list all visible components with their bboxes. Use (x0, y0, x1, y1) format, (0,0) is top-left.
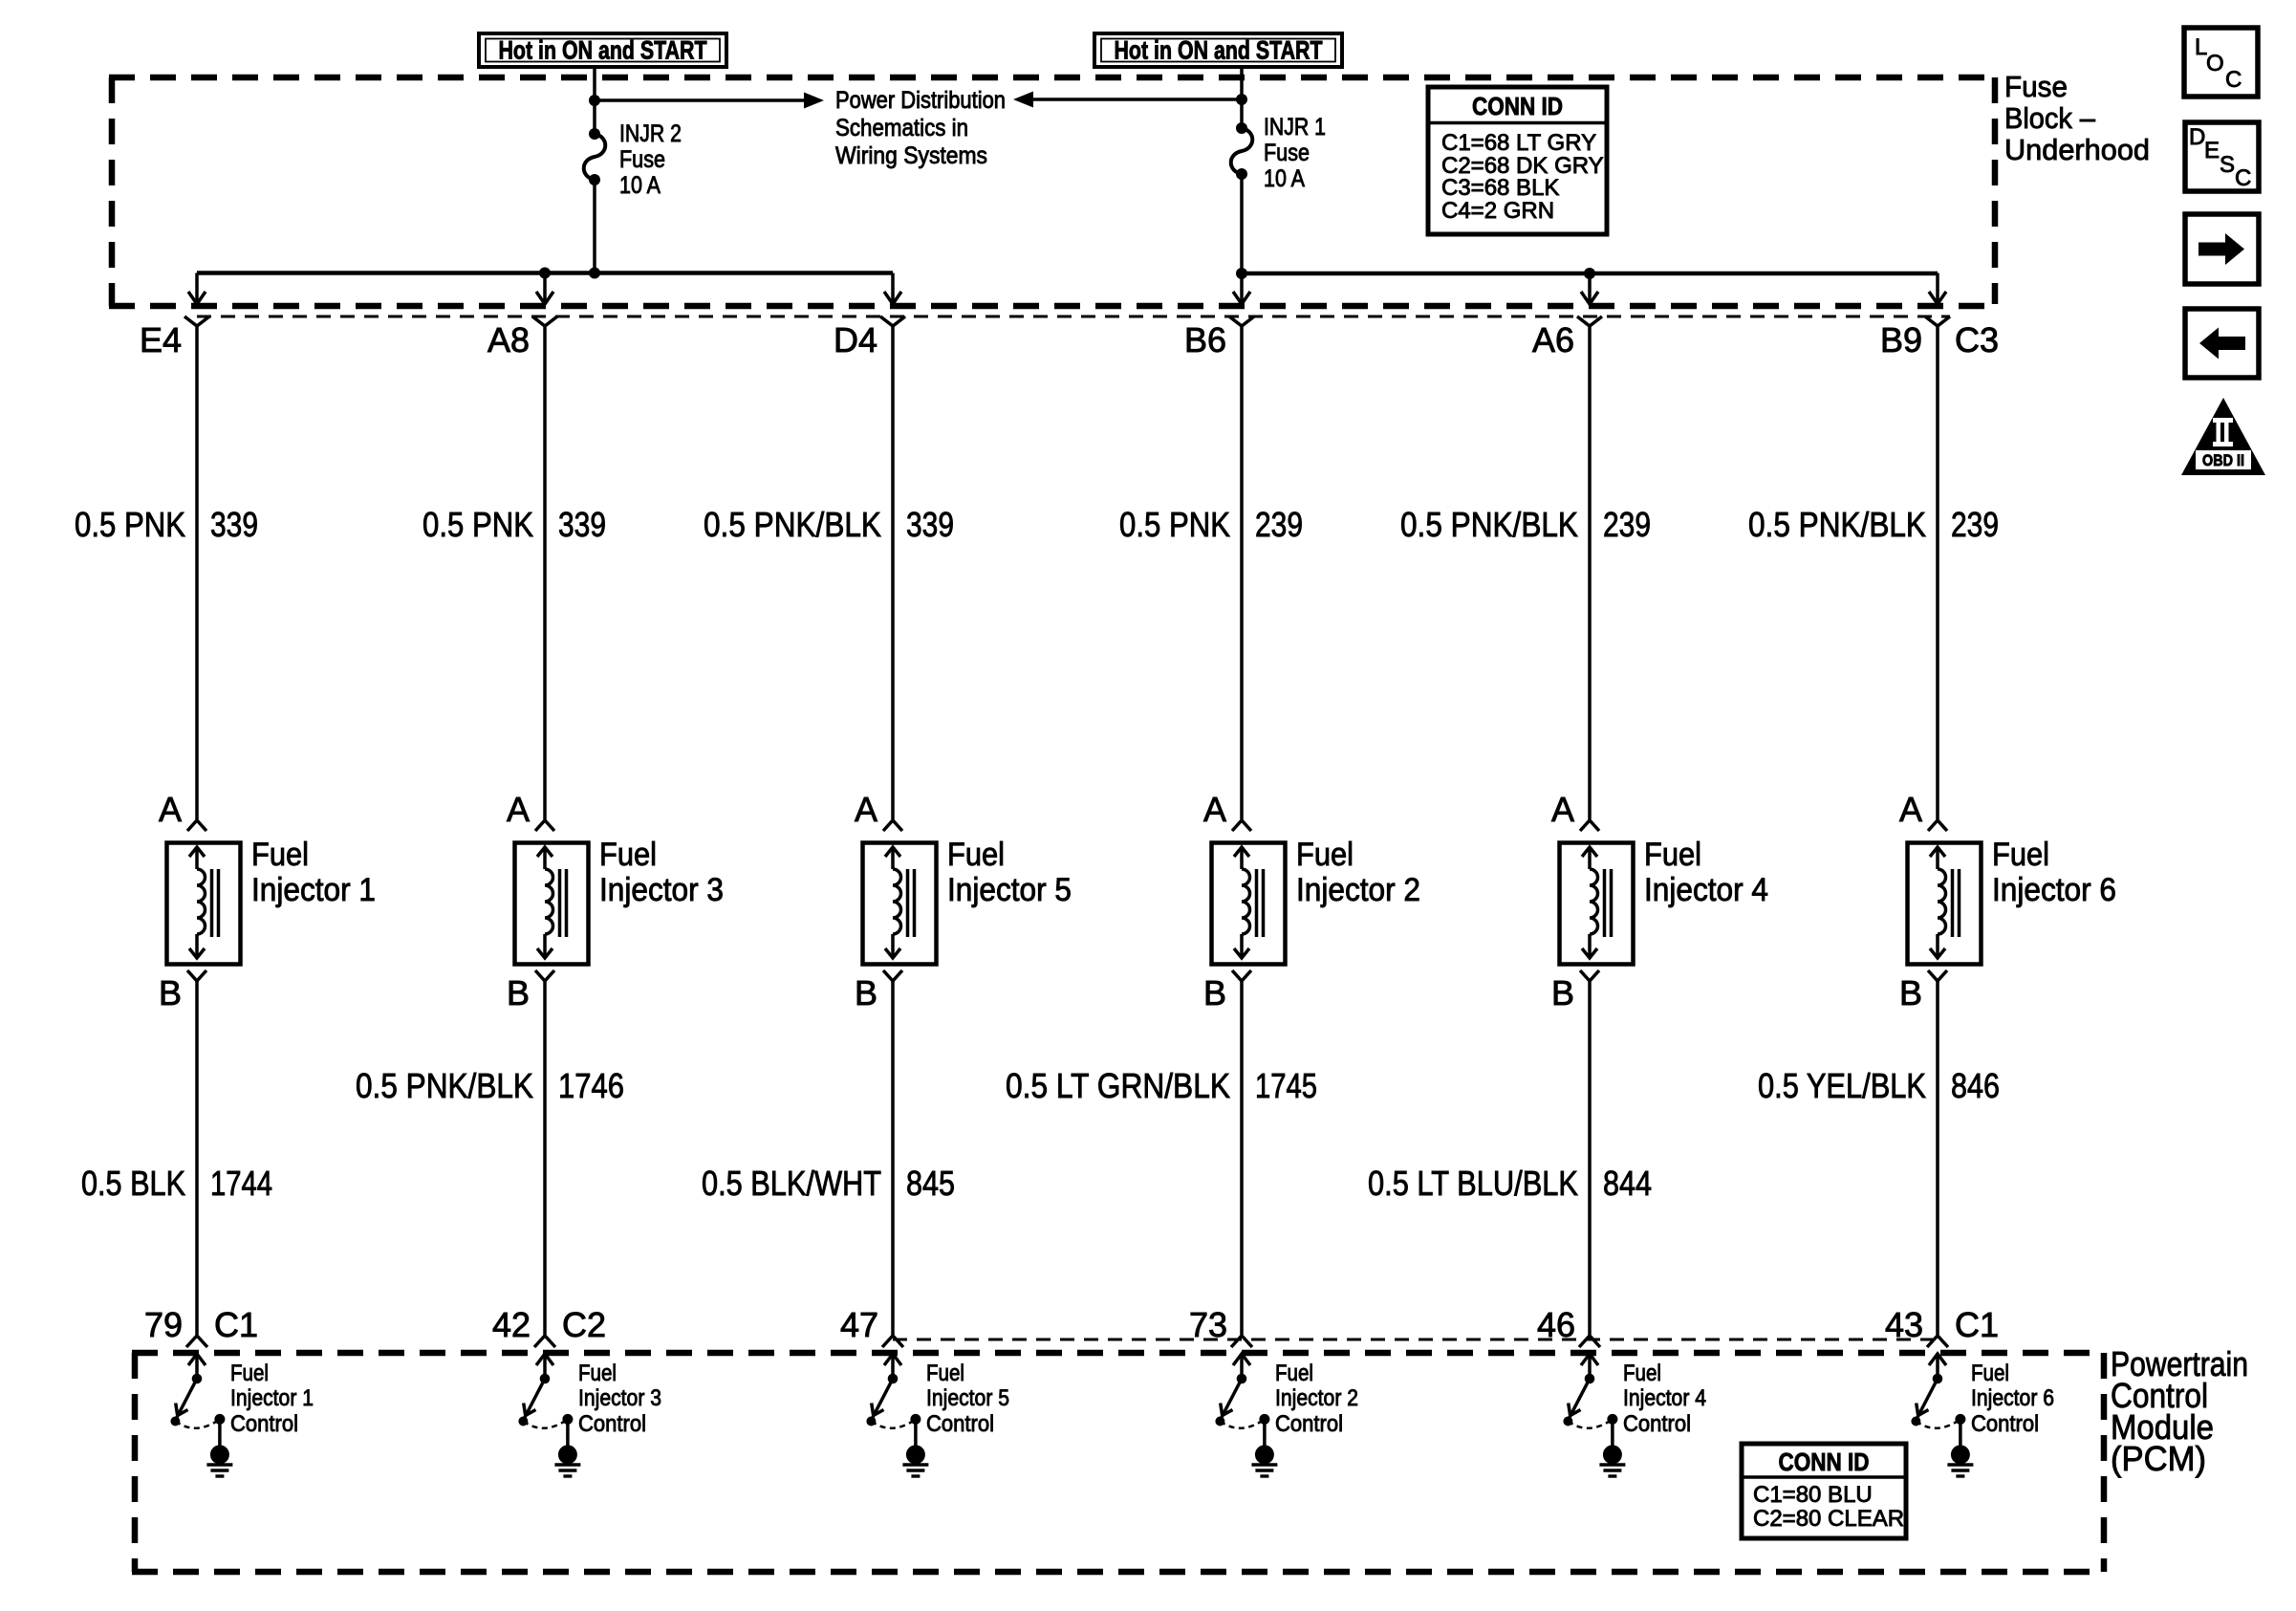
svg-text:C: C (2225, 67, 2242, 93)
svg-text:46: 46 (1537, 1305, 1575, 1344)
svg-text:C3=68 BLK: C3=68 BLK (1441, 175, 1559, 201)
svg-text:Control: Control (578, 1411, 646, 1437)
svg-text:47: 47 (840, 1305, 878, 1344)
svg-text:0.5 PNK/BLK: 0.5 PNK/BLK (356, 1066, 533, 1105)
svg-text:846: 846 (1951, 1066, 2000, 1105)
svg-text:Injector 5: Injector 5 (947, 872, 1072, 908)
svg-text:Control: Control (1971, 1411, 2039, 1437)
svg-text:A8: A8 (487, 320, 530, 359)
svg-text:E: E (2204, 138, 2220, 163)
svg-text:Control: Control (1275, 1411, 1343, 1437)
svg-text:339: 339 (210, 505, 258, 544)
svg-text:C2=80 CLEAR: C2=80 CLEAR (1753, 1506, 1904, 1532)
svg-text:Fuel: Fuel (926, 1361, 964, 1386)
svg-text:B: B (507, 973, 530, 1012)
svg-text:Injector 2: Injector 2 (1275, 1385, 1358, 1411)
svg-text:A: A (507, 790, 530, 829)
svg-text:B: B (1203, 973, 1226, 1012)
svg-text:A6: A6 (1532, 320, 1574, 359)
svg-text:1745: 1745 (1255, 1066, 1317, 1105)
svg-text:S: S (2220, 152, 2235, 178)
svg-text:Block –: Block – (2004, 101, 2096, 135)
svg-text:0.5 LT GRN/BLK: 0.5 LT GRN/BLK (1006, 1066, 1230, 1105)
svg-text:Fuel: Fuel (230, 1361, 269, 1386)
svg-text:Fuel: Fuel (578, 1361, 617, 1386)
svg-text:1746: 1746 (558, 1066, 624, 1105)
svg-text:42: 42 (492, 1305, 531, 1344)
svg-text:C3: C3 (1955, 320, 1999, 359)
svg-text:Fuse: Fuse (2004, 70, 2068, 103)
svg-text:Injector 3: Injector 3 (599, 872, 724, 908)
svg-text:Injector 6: Injector 6 (1992, 872, 2116, 908)
svg-text:Fuel: Fuel (1644, 837, 1701, 873)
svg-text:239: 239 (1951, 505, 1999, 544)
svg-text:Fuel: Fuel (599, 837, 657, 873)
svg-text:0.5 PNK/BLK: 0.5 PNK/BLK (1400, 505, 1578, 544)
svg-text:C1: C1 (214, 1305, 258, 1344)
svg-text:Fuel: Fuel (1296, 837, 1354, 873)
svg-text:0.5 PNK: 0.5 PNK (422, 505, 533, 544)
svg-text:CONN ID: CONN ID (1779, 1448, 1870, 1476)
svg-text:845: 845 (906, 1164, 955, 1203)
svg-text:Fuse: Fuse (1264, 140, 1310, 166)
svg-text:43: 43 (1885, 1305, 1923, 1344)
svg-text:Fuel: Fuel (1971, 1361, 2009, 1386)
svg-text:0.5 LT BLU/BLK: 0.5 LT BLU/BLK (1368, 1164, 1578, 1203)
svg-text:D: D (2189, 124, 2205, 150)
svg-text:Injector 5: Injector 5 (926, 1385, 1009, 1411)
svg-text:0.5 BLK/WHT: 0.5 BLK/WHT (702, 1164, 881, 1203)
svg-text:339: 339 (906, 505, 954, 544)
svg-text:Injector 1: Injector 1 (230, 1385, 314, 1411)
svg-text:Underhood: Underhood (2004, 133, 2150, 166)
svg-text:Fuel: Fuel (251, 837, 309, 873)
svg-text:Wiring Systems: Wiring Systems (835, 142, 987, 169)
svg-text:B: B (1899, 973, 1922, 1012)
svg-text:Schematics in: Schematics in (835, 115, 968, 142)
svg-text:Power Distribution: Power Distribution (835, 87, 1006, 114)
svg-text:C4=2 GRN: C4=2 GRN (1441, 198, 1554, 224)
svg-text:CONN ID: CONN ID (1472, 92, 1563, 120)
svg-text:Hot in ON and START: Hot in ON and START (499, 36, 707, 65)
svg-text:844: 844 (1603, 1164, 1652, 1203)
svg-text:Injector 1: Injector 1 (251, 872, 376, 908)
svg-text:10 A: 10 A (1264, 165, 1305, 192)
svg-text:1744: 1744 (210, 1164, 272, 1203)
svg-text:C: C (2235, 165, 2251, 191)
svg-text:C1=68 LT GRY: C1=68 LT GRY (1441, 130, 1596, 156)
svg-text:E4: E4 (140, 320, 182, 359)
svg-text:10 A: 10 A (619, 172, 661, 199)
svg-text:73: 73 (1189, 1305, 1227, 1344)
svg-text:Fuse: Fuse (619, 146, 665, 173)
svg-text:INJR 1: INJR 1 (1264, 114, 1326, 141)
svg-text:(PCM): (PCM) (2111, 1439, 2206, 1478)
svg-text:Injector 4: Injector 4 (1644, 872, 1768, 908)
svg-text:Fuel: Fuel (1623, 1361, 1661, 1386)
svg-text:INJR 2: INJR 2 (619, 120, 682, 147)
svg-text:B: B (1551, 973, 1574, 1012)
svg-text:OBD II: OBD II (2202, 451, 2244, 469)
svg-text:B: B (855, 973, 877, 1012)
svg-text:Injector 2: Injector 2 (1296, 872, 1420, 908)
svg-text:Fuel: Fuel (1275, 1361, 1313, 1386)
svg-text:C2: C2 (562, 1305, 606, 1344)
svg-text:A: A (1551, 790, 1574, 829)
svg-text:Hot in ON and START: Hot in ON and START (1115, 36, 1323, 65)
svg-text:79: 79 (144, 1305, 183, 1344)
svg-text:0.5 BLK: 0.5 BLK (81, 1164, 185, 1203)
svg-text:339: 339 (558, 505, 606, 544)
svg-text:C1=80 BLU: C1=80 BLU (1753, 1482, 1873, 1508)
svg-text:B9: B9 (1880, 320, 1922, 359)
svg-text:A: A (159, 790, 182, 829)
svg-text:0.5 YEL/BLK: 0.5 YEL/BLK (1758, 1066, 1926, 1105)
svg-text:Injector 6: Injector 6 (1971, 1385, 2054, 1411)
svg-text:Control: Control (230, 1411, 298, 1437)
svg-text:0.5 PNK/BLK: 0.5 PNK/BLK (704, 505, 881, 544)
svg-text:A: A (1203, 790, 1226, 829)
svg-text:Fuel: Fuel (1992, 837, 2049, 873)
svg-text:Fuel: Fuel (947, 837, 1005, 873)
svg-text:0.5 PNK: 0.5 PNK (75, 505, 185, 544)
svg-text:C1: C1 (1955, 1305, 1999, 1344)
svg-text:Control: Control (926, 1411, 994, 1437)
svg-text:239: 239 (1603, 505, 1651, 544)
svg-text:Control: Control (1623, 1411, 1691, 1437)
svg-text:0.5 PNK: 0.5 PNK (1119, 505, 1230, 544)
svg-text:0.5 PNK/BLK: 0.5 PNK/BLK (1748, 505, 1926, 544)
svg-text:Injector 3: Injector 3 (578, 1385, 661, 1411)
svg-text:D4: D4 (834, 320, 877, 359)
svg-text:B: B (159, 973, 182, 1012)
svg-text:O: O (2206, 51, 2224, 76)
svg-text:B6: B6 (1184, 320, 1226, 359)
svg-text:Injector 4: Injector 4 (1623, 1385, 1706, 1411)
svg-text:A: A (1899, 790, 1922, 829)
svg-text:A: A (855, 790, 877, 829)
svg-text:239: 239 (1255, 505, 1303, 544)
